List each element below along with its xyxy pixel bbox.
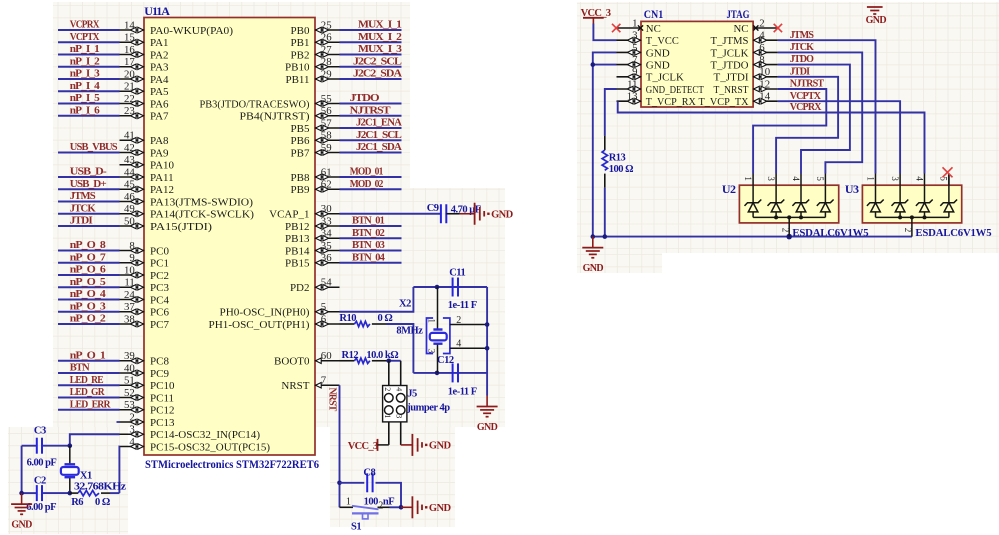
wire + net label USB_D+ bbox=[58, 179, 120, 190]
svg-text:J2C1_SDA: J2C1_SDA bbox=[356, 142, 403, 153]
capacitor C11 1e-11F bbox=[448, 267, 477, 311]
power GND bottom-left bbox=[11, 493, 32, 530]
svg-text:PB12: PB12 bbox=[285, 221, 309, 233]
resistor R10 0R on PH1 wire bbox=[339, 313, 392, 326]
svg-text:JTMS: JTMS bbox=[70, 191, 96, 202]
svg-text:nP_I_3: nP_I_3 bbox=[70, 69, 100, 80]
svg-text:PB13: PB13 bbox=[285, 233, 310, 245]
pin 60 (BOOT0) right bbox=[274, 350, 339, 368]
svg-text:J2C1_ENA: J2C1_ENA bbox=[356, 118, 403, 129]
svg-text:NC: NC bbox=[734, 23, 749, 35]
svg-text:PC6: PC6 bbox=[150, 307, 169, 319]
svg-text:3: 3 bbox=[766, 176, 776, 181]
svg-text:U2: U2 bbox=[722, 182, 736, 196]
svg-text:52: 52 bbox=[124, 387, 135, 399]
svg-text:PB7: PB7 bbox=[291, 147, 310, 159]
wire + net label J2C2_SCL bbox=[340, 56, 403, 67]
svg-text:PA3: PA3 bbox=[150, 62, 169, 74]
power GND (rotated) at S1 bbox=[401, 496, 451, 518]
svg-text:1e-11 F: 1e-11 F bbox=[448, 387, 477, 398]
svg-text:T_JCLK: T_JCLK bbox=[711, 47, 749, 59]
svg-text:15: 15 bbox=[124, 32, 135, 44]
svg-text:3: 3 bbox=[129, 424, 134, 436]
wire + net label JTMS bbox=[778, 30, 876, 174]
svg-text:GND: GND bbox=[491, 209, 514, 220]
svg-text:JTMS: JTMS bbox=[790, 30, 815, 41]
wire + net label J2C1_ENA bbox=[340, 118, 403, 129]
svg-text:0 Ω: 0 Ω bbox=[378, 313, 393, 324]
wire + net label JTDO bbox=[778, 54, 850, 173]
svg-text:U11A: U11A bbox=[144, 4, 170, 18]
svg-text:JTCK: JTCK bbox=[790, 42, 814, 53]
capacitor C8 100nF bbox=[340, 467, 402, 507]
wire + net label MUX_I_3 bbox=[340, 44, 402, 55]
svg-text:PB3(JTDO/TRACESWO): PB3(JTDO/TRACESWO) bbox=[200, 98, 310, 110]
svg-text:PC14-OSC32_IN(PC14): PC14-OSC32_IN(PC14) bbox=[150, 429, 260, 441]
wire bottom rail bbox=[19, 491, 72, 496]
svg-text:CN1: CN1 bbox=[644, 7, 664, 21]
svg-text:PB10: PB10 bbox=[285, 62, 310, 74]
pin 38 (PC7) left bbox=[120, 313, 170, 331]
wire crystal bottom rail with C12 bbox=[413, 371, 487, 376]
power GND below CN1 bbox=[582, 237, 603, 275]
wire + net label NJTRST bbox=[340, 105, 402, 116]
svg-text:6: 6 bbox=[759, 42, 765, 54]
U3 common bus + pin 2 stem bbox=[876, 215, 949, 236]
wire VCAP_1 to C9 bbox=[340, 213, 441, 215]
wire + net label MOD_01 bbox=[340, 167, 402, 178]
svg-text:57: 57 bbox=[321, 117, 332, 129]
svg-text:JTAG: JTAG bbox=[727, 7, 750, 21]
wire + net label VCPRX bbox=[58, 20, 120, 31]
pin 7 (NRST) right bbox=[281, 375, 339, 393]
svg-text:10.0 kΩ: 10.0 kΩ bbox=[366, 350, 398, 361]
wire + net label VCPTX bbox=[58, 32, 120, 43]
svg-text:S1: S1 bbox=[351, 521, 361, 532]
wire + net label nP_I_3 bbox=[58, 69, 120, 80]
wire + net label nP_O_7 bbox=[58, 252, 120, 263]
resistor R12 10k on BOOT0 wire bbox=[340, 350, 399, 363]
svg-text:41: 41 bbox=[124, 130, 135, 142]
svg-text:PC9: PC9 bbox=[150, 368, 169, 380]
wire + net label BTN_02 bbox=[340, 228, 402, 239]
svg-text:PC11: PC11 bbox=[150, 392, 174, 404]
pin 24 (PC4) left bbox=[120, 289, 170, 307]
pin 58 (PB6) right bbox=[291, 130, 340, 148]
wire + net label nP_O_4 bbox=[58, 289, 120, 300]
wire NRST down to S1/C8 bbox=[339, 385, 341, 507]
svg-text:10: 10 bbox=[759, 66, 770, 78]
svg-text:7: 7 bbox=[632, 54, 638, 66]
svg-text:PA8: PA8 bbox=[150, 135, 169, 147]
svg-text:PC15-OSC32_OUT(PC15): PC15-OSC32_OUT(PC15) bbox=[150, 441, 270, 453]
svg-text:PB6: PB6 bbox=[291, 135, 310, 147]
svg-text:PB1: PB1 bbox=[291, 37, 310, 49]
svg-text:GND: GND bbox=[477, 422, 498, 433]
svg-text:40: 40 bbox=[124, 362, 135, 374]
svg-text:9: 9 bbox=[632, 66, 637, 78]
svg-text:LED_RE: LED_RE bbox=[70, 375, 104, 386]
svg-text:12: 12 bbox=[759, 78, 770, 90]
CN1 pin 5 (GND) bbox=[617, 42, 670, 60]
svg-text:C8: C8 bbox=[363, 467, 375, 478]
svg-text:JTDO: JTDO bbox=[350, 93, 380, 104]
svg-text:60: 60 bbox=[321, 350, 332, 362]
svg-text:PB2: PB2 bbox=[291, 49, 310, 61]
wire + net label LED_ERR bbox=[58, 399, 120, 410]
U2 TVS diode pin 4 bbox=[791, 174, 809, 218]
svg-text:PC10: PC10 bbox=[150, 380, 175, 392]
svg-text:16: 16 bbox=[124, 44, 135, 56]
svg-text:NRST: NRST bbox=[281, 380, 309, 392]
wire + net label VCPRX bbox=[618, 101, 925, 173]
svg-text:R6: R6 bbox=[71, 497, 83, 508]
svg-text:BOOT0: BOOT0 bbox=[274, 356, 310, 368]
pin 51 (PC10) left bbox=[120, 375, 175, 393]
pin 45 (PA12) left bbox=[120, 179, 175, 197]
svg-text:PC4: PC4 bbox=[150, 294, 169, 306]
pin 37 (PC6) left bbox=[120, 301, 170, 319]
wire + net label MUX_I_2 bbox=[340, 32, 402, 43]
svg-text:PB15: PB15 bbox=[285, 258, 310, 270]
svg-text:3: 3 bbox=[890, 176, 900, 181]
svg-text:nP_I_6: nP_I_6 bbox=[70, 105, 100, 116]
svg-text:8: 8 bbox=[129, 240, 134, 252]
pin 5 (PH0-OSC_IN(PH0)) right bbox=[220, 301, 340, 319]
svg-text:USB_D+: USB_D+ bbox=[70, 179, 107, 190]
capacitor C12 1e-11F bbox=[437, 355, 477, 397]
svg-text:J2C2_SCL: J2C2_SCL bbox=[353, 56, 402, 67]
svg-text:PA14(JTCK-SWCLK): PA14(JTCK-SWCLK) bbox=[150, 209, 254, 221]
wire + net label nP_O_8 bbox=[58, 240, 120, 251]
svg-text:PA13(JTMS-SWDIO): PA13(JTMS-SWDIO) bbox=[150, 196, 253, 208]
svg-text:2: 2 bbox=[903, 228, 913, 233]
svg-text:BTN_04: BTN_04 bbox=[352, 252, 385, 263]
wire + net label J2C2_SDA bbox=[340, 69, 403, 80]
pin 41 (PA8) left bbox=[120, 130, 170, 148]
CN1 pin 6 (T_JCLK) bbox=[711, 42, 778, 60]
svg-text:23: 23 bbox=[124, 105, 135, 117]
svg-text:PA1: PA1 bbox=[150, 37, 169, 49]
svg-text:17: 17 bbox=[124, 56, 135, 68]
svg-text:VCPRX: VCPRX bbox=[790, 102, 823, 113]
svg-text:37: 37 bbox=[124, 301, 135, 313]
svg-text:32.768KHz: 32.768KHz bbox=[74, 481, 126, 492]
pin 28 (PB10) right bbox=[285, 56, 339, 74]
wire + net label nP_O_1 bbox=[58, 350, 120, 361]
svg-text:J2C1_SCL: J2C1_SCL bbox=[356, 130, 402, 141]
pin 49 (PA14(JTCK-SWCLK)) left bbox=[120, 203, 255, 221]
svg-text:8: 8 bbox=[759, 54, 764, 66]
svg-text:49: 49 bbox=[124, 203, 135, 215]
capacitor C3 6.00pF bbox=[27, 425, 57, 468]
svg-text:MUX_I_1: MUX_I_1 bbox=[358, 20, 402, 31]
pin 52 (PC11) left bbox=[120, 387, 175, 405]
svg-text:nP_I_1: nP_I_1 bbox=[70, 44, 100, 55]
U3 TVS diode pin 5 bbox=[939, 174, 957, 218]
svg-text:PC0: PC0 bbox=[150, 245, 169, 257]
svg-text:NJTRST: NJTRST bbox=[790, 79, 825, 90]
svg-text:T_JCLK: T_JCLK bbox=[646, 72, 684, 84]
svg-text:2: 2 bbox=[378, 501, 383, 512]
svg-text:100: 100 bbox=[364, 497, 379, 508]
svg-text:26: 26 bbox=[321, 32, 332, 44]
pin 34 (PB13) right bbox=[285, 228, 339, 246]
svg-text:nP_O_4: nP_O_4 bbox=[70, 289, 106, 300]
svg-text:62: 62 bbox=[321, 179, 332, 191]
svg-text:C12: C12 bbox=[437, 355, 454, 366]
power VCC_3 top-left bbox=[581, 8, 611, 24]
svg-text:13: 13 bbox=[627, 91, 638, 103]
svg-text:0 Ω: 0 Ω bbox=[95, 497, 110, 508]
CN1 pin 14 (T_VCP_TX) bbox=[699, 91, 778, 109]
svg-text:nP_I_2: nP_I_2 bbox=[70, 56, 100, 67]
wire + net label BTN bbox=[58, 363, 120, 374]
svg-text:T_VCC: T_VCC bbox=[646, 35, 679, 47]
svg-text:11: 11 bbox=[627, 78, 637, 90]
svg-text:4: 4 bbox=[395, 387, 404, 391]
svg-text:LED_GR: LED_GR bbox=[70, 387, 105, 398]
pin 42 (PA9) left bbox=[120, 142, 170, 160]
svg-text:6: 6 bbox=[321, 313, 327, 325]
svg-text:T_NRST: T_NRST bbox=[714, 84, 749, 96]
svg-text:51: 51 bbox=[124, 375, 135, 387]
svg-text:nP_O_7: nP_O_7 bbox=[70, 252, 106, 263]
svg-text:C9: C9 bbox=[427, 203, 439, 214]
svg-text:PC13: PC13 bbox=[150, 417, 175, 429]
svg-text:4: 4 bbox=[129, 436, 135, 448]
svg-text:PA15(JTDI): PA15(JTDI) bbox=[150, 221, 212, 233]
svg-text:3: 3 bbox=[632, 30, 637, 42]
svg-text:nP_I_5: nP_I_5 bbox=[70, 93, 100, 104]
svg-text:J5: J5 bbox=[407, 389, 417, 400]
svg-text:3: 3 bbox=[395, 414, 404, 418]
svg-text:20: 20 bbox=[124, 68, 135, 80]
pin 10 (PC2) left bbox=[120, 264, 169, 282]
pin 15 (PA1) left bbox=[120, 32, 169, 50]
svg-text:PA4: PA4 bbox=[150, 74, 169, 86]
pin 2 (PC13) left bbox=[120, 411, 175, 429]
svg-text:5: 5 bbox=[321, 301, 326, 313]
svg-text:nP_O_2: nP_O_2 bbox=[70, 314, 106, 325]
net label NRST (vertical) bbox=[326, 388, 337, 412]
wire + net label VCPTX bbox=[778, 91, 901, 174]
svg-text:1: 1 bbox=[427, 319, 437, 324]
svg-text:43: 43 bbox=[124, 154, 135, 166]
svg-text:33: 33 bbox=[321, 215, 332, 227]
U2 TVS diode pin 1 bbox=[743, 174, 761, 218]
svg-text:2: 2 bbox=[129, 411, 134, 423]
svg-text:nP_O_6: nP_O_6 bbox=[70, 265, 106, 276]
svg-text:GND: GND bbox=[646, 47, 670, 59]
pin 46 (PA13(JTMS-SWDIO)) left bbox=[120, 191, 254, 209]
wire + net label J2C1_SDA bbox=[340, 142, 403, 153]
svg-text:R13: R13 bbox=[609, 152, 626, 163]
svg-text:53: 53 bbox=[124, 399, 135, 411]
svg-text:nP_O_5: nP_O_5 bbox=[70, 277, 106, 288]
svg-text:2: 2 bbox=[456, 315, 461, 326]
svg-text:28: 28 bbox=[321, 56, 332, 68]
U2 common bus + pin 2 stem bbox=[753, 215, 825, 236]
wire stub PC13 bbox=[117, 421, 120, 423]
power VCC_3 (rotated bar) at J5 bbox=[348, 439, 389, 452]
svg-text:PA6: PA6 bbox=[150, 98, 169, 110]
wire left vertical (GND side) bbox=[21, 446, 23, 493]
svg-text:PC3: PC3 bbox=[150, 282, 169, 294]
svg-text:GND: GND bbox=[866, 15, 887, 26]
svg-text:PC1: PC1 bbox=[150, 258, 169, 270]
svg-text:USB_VBUS: USB_VBUS bbox=[70, 142, 118, 153]
svg-text:1: 1 bbox=[383, 414, 392, 418]
wire right rail of crystal block bbox=[485, 287, 490, 396]
ESD array U2 body bbox=[722, 182, 869, 239]
wire + net label nP_I_5 bbox=[58, 93, 120, 104]
svg-text:4: 4 bbox=[791, 176, 801, 181]
svg-text:nP_O_3: nP_O_3 bbox=[70, 301, 106, 312]
svg-text:14: 14 bbox=[759, 91, 770, 103]
pin 59 (PB7) right bbox=[291, 142, 340, 160]
svg-text:55: 55 bbox=[321, 93, 332, 105]
svg-text:PC7: PC7 bbox=[150, 319, 169, 331]
wire + net label nP_O_5 bbox=[58, 277, 120, 288]
wire + net label USB_VBUS bbox=[58, 142, 120, 153]
svg-text:PB9: PB9 bbox=[291, 184, 310, 196]
pin 30 (VCAP_1) right bbox=[269, 203, 339, 221]
svg-text:X1: X1 bbox=[80, 470, 92, 481]
wire + net label JTDI bbox=[58, 216, 120, 227]
CN1 pin 13 (T_VCP_RX) bbox=[617, 91, 696, 109]
wire + net label LED_RE bbox=[58, 375, 120, 386]
wire PC15 to crystal node bbox=[118, 447, 120, 494]
IC U11A STM32F722RET6 body bbox=[144, 4, 319, 471]
svg-text:56: 56 bbox=[321, 105, 332, 117]
wire + net label nP_I_4 bbox=[58, 81, 120, 92]
svg-text:PC8: PC8 bbox=[150, 356, 169, 368]
pin 11 (PC3) left bbox=[120, 277, 170, 295]
wire BOOT0 to J5 top pins bbox=[387, 358, 401, 363]
pin 57 (PB5) right bbox=[291, 117, 340, 134]
svg-text:NJTRST: NJTRST bbox=[350, 105, 391, 116]
svg-text:nP_O_1: nP_O_1 bbox=[70, 350, 106, 361]
wire + net label J2C1_SCL bbox=[340, 130, 403, 141]
pin 27 (PB2) right bbox=[291, 44, 340, 62]
svg-text:BTN_02: BTN_02 bbox=[352, 228, 385, 239]
pin 21 (PA5) left bbox=[120, 81, 170, 99]
CN1 pin 1 (NC) bbox=[617, 17, 661, 35]
junction dot NRST/C8 bbox=[337, 481, 342, 486]
pin 54 (PD2) right bbox=[290, 277, 340, 295]
svg-text:PA5: PA5 bbox=[150, 86, 169, 98]
svg-text:jumper 4p: jumper 4p bbox=[406, 402, 450, 413]
wire + net label BTN_04 bbox=[340, 252, 402, 263]
pin 39 (PC8) left bbox=[120, 350, 170, 368]
svg-text:T_VCP_RX: T_VCP_RX bbox=[646, 96, 696, 108]
pin 56 (PB4(NJTRST)) right bbox=[240, 105, 340, 123]
svg-text:T_VCP_TX: T_VCP_TX bbox=[699, 96, 749, 108]
wire + net label JTCK bbox=[58, 203, 120, 214]
svg-text:T_JTDI: T_JTDI bbox=[714, 72, 749, 84]
CN1 pin 4 (T_JTMS) bbox=[711, 30, 778, 48]
svg-text:GND: GND bbox=[583, 263, 604, 274]
svg-text:10: 10 bbox=[124, 264, 135, 276]
svg-text:R12: R12 bbox=[342, 350, 359, 361]
svg-text:MOD_01: MOD_01 bbox=[350, 167, 384, 178]
svg-text:4: 4 bbox=[456, 339, 461, 350]
svg-text:T_JTDO: T_JTDO bbox=[711, 60, 749, 72]
power GND (rotated) at C9 bbox=[460, 203, 514, 225]
svg-text:100 Ω: 100 Ω bbox=[609, 164, 633, 175]
svg-text:1e-11 F: 1e-11 F bbox=[448, 300, 477, 311]
pin 20 (PA4) left bbox=[120, 68, 170, 86]
wire + net label nP_I_2 bbox=[58, 56, 120, 67]
pin 36 (PB15) right bbox=[285, 252, 339, 270]
svg-text:1: 1 bbox=[743, 176, 753, 181]
svg-text:J2C2_SDA: J2C2_SDA bbox=[353, 69, 403, 80]
svg-text:54: 54 bbox=[321, 277, 332, 289]
U3 pin5 NC stub + red X bbox=[943, 167, 953, 185]
svg-text:PC12: PC12 bbox=[150, 405, 174, 417]
svg-text:nP_O_8: nP_O_8 bbox=[70, 240, 106, 251]
CN1 pin 2 (NC) bbox=[734, 17, 778, 35]
svg-text:24: 24 bbox=[124, 289, 135, 301]
svg-text:PD2: PD2 bbox=[290, 282, 310, 294]
svg-text:PB11: PB11 bbox=[285, 74, 309, 86]
svg-text:C3: C3 bbox=[34, 425, 46, 436]
svg-text:T_JTMS: T_JTMS bbox=[711, 35, 749, 47]
pin 43 (PA10) left bbox=[120, 154, 175, 172]
wire crystal top rail with C11 bbox=[413, 285, 487, 290]
wire GND net (pins 5,7) bbox=[591, 52, 617, 236]
svg-text:PH1-OSC_OUT(PH1): PH1-OSC_OUT(PH1) bbox=[209, 319, 310, 331]
svg-text:4: 4 bbox=[759, 30, 765, 42]
svg-text:ESDALC6V1W5: ESDALC6V1W5 bbox=[915, 227, 992, 239]
U3 TVS diode pin 4 bbox=[914, 174, 932, 218]
svg-text:44: 44 bbox=[124, 166, 135, 178]
svg-text:JTCK: JTCK bbox=[70, 203, 96, 214]
wire + net label NJTRST bbox=[753, 79, 826, 174]
svg-text:GND: GND bbox=[429, 503, 452, 514]
pin 29 (PB11) right bbox=[285, 68, 339, 86]
svg-text:14: 14 bbox=[124, 19, 135, 31]
jumper J5 (2x2 header) bbox=[383, 361, 451, 445]
CN1 pin 11 (GND_DETECT) bbox=[617, 78, 705, 96]
no-connect marks CN1 pin 1 bbox=[612, 24, 643, 32]
svg-text:C2: C2 bbox=[34, 476, 46, 487]
svg-text:PA10: PA10 bbox=[150, 160, 175, 172]
ESD array U3 body bbox=[845, 182, 992, 239]
svg-text:2: 2 bbox=[759, 17, 764, 29]
svg-text:29: 29 bbox=[321, 68, 332, 80]
svg-text:VCC_3: VCC_3 bbox=[348, 441, 378, 452]
svg-text:PA2: PA2 bbox=[150, 49, 169, 61]
wire + net label BTN_03 bbox=[340, 240, 402, 251]
pin 14 (PA0-WKUP(PA0)) left bbox=[120, 19, 234, 37]
U2 TVS diode pin 5 bbox=[815, 174, 833, 218]
pin 17 (PA3) left bbox=[120, 56, 170, 74]
pin 6 (PH1-OSC_OUT(PH1)) right bbox=[209, 313, 340, 331]
wire bottom GND rail to diode commons bbox=[591, 234, 912, 240]
capacitor C9 4.70uF bbox=[427, 203, 481, 223]
svg-text:VCPTX: VCPTX bbox=[790, 91, 822, 102]
svg-text:USB_D-: USB_D- bbox=[70, 167, 107, 178]
svg-text:1: 1 bbox=[865, 176, 875, 181]
wire + net label BTN_01 bbox=[340, 216, 402, 227]
svg-text:PA9: PA9 bbox=[150, 147, 169, 159]
svg-text:39: 39 bbox=[124, 350, 135, 362]
svg-text:34: 34 bbox=[321, 228, 332, 240]
wire + net label JTCK bbox=[778, 42, 863, 174]
svg-text:2: 2 bbox=[780, 228, 790, 233]
